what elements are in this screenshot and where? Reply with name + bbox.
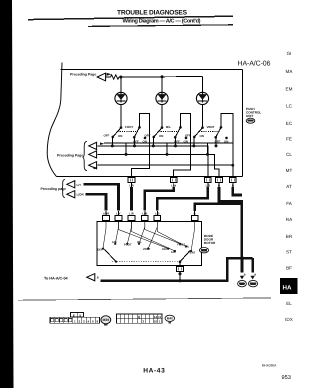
svg-text:B/L: B/L (166, 125, 171, 129)
svg-text:OFF: OFF (185, 134, 191, 138)
svg-text:OFF: OFF (145, 134, 151, 138)
svg-text:TROUBLE DIAGNOSES: TROUBLE DIAGNOSES (117, 9, 188, 16)
motor wiper arm right (180, 251, 190, 262)
svg-text:EM: EM (286, 86, 293, 91)
svg-text:RA: RA (286, 217, 293, 222)
push control unit connector oval (246, 118, 255, 123)
svg-text:Preceding Page: Preceding Page (57, 154, 83, 158)
ground arrow 1 (240, 276, 244, 280)
common line L0 (104, 142, 233, 144)
junction dot bus3 to vent leg (231, 164, 234, 167)
preceding page arrow bus2 (89, 151, 97, 158)
svg-text:OFF: OFF (104, 134, 110, 138)
svg-text:VENT: VENT (207, 125, 215, 129)
motor bottom pin (177, 266, 184, 271)
push pin stems (132, 183, 233, 188)
thick wire motor B pin (195, 204, 242, 211)
wire motor to ground bus (179, 271, 181, 280)
thick ground wire pin5 (233, 187, 242, 195)
svg-text:BR: BR (286, 234, 293, 239)
motor pin stems (106, 211, 195, 216)
motor connector oval (200, 248, 209, 253)
flow arrow bus1 (100, 142, 104, 145)
svg-text:VENT: VENT (143, 247, 151, 251)
push control unit label (246, 107, 261, 118)
bus wire 2 (98, 154, 220, 177)
svg-text:EC: EC (286, 121, 293, 126)
VENT switch group (185, 105, 233, 178)
svg-text:EL: EL (286, 301, 292, 306)
ground drop 2 (251, 258, 254, 272)
svg-text:Preceding Page: Preceding Page (70, 73, 96, 77)
bottom connector A id oval (101, 316, 111, 324)
svg-text:B/L: B/L (137, 240, 142, 244)
svg-text:11: 11 (158, 315, 162, 319)
svg-text:ON: ON (118, 134, 122, 138)
preceding page arrow top (97, 73, 105, 81)
svg-text:GI: GI (287, 51, 292, 56)
svg-text:M39: M39 (102, 318, 109, 322)
svg-text:L/OR: L/OR (103, 212, 109, 215)
bottom connector A top box (71, 312, 84, 317)
mode door motor label (204, 234, 216, 245)
svg-text:IDX: IDX (285, 317, 293, 322)
LED lamp 2 (B/L indicator) (156, 77, 168, 105)
svg-text:953: 953 (282, 375, 291, 381)
thick wire L/R pin1 to motor (130, 187, 133, 210)
svg-text:HA-A/C-06: HA-A/C-06 (238, 59, 271, 67)
svg-text:B: B (254, 274, 256, 277)
flow arrow on top wire (107, 73, 112, 76)
to HA-A/C-04 arrow (87, 274, 95, 281)
svg-text:MT: MT (286, 168, 293, 173)
ground junction dot (240, 256, 244, 260)
bottom connector B grid (117, 314, 163, 323)
svg-text:DEF: DEF (162, 247, 168, 251)
svg-text:To HA-A/C-04: To HA-A/C-04 (44, 276, 69, 280)
svg-text:L/Y: L/Y (116, 212, 120, 215)
wire from arrow to resistor (106, 76, 111, 78)
svg-text:A/D: A/D (112, 240, 117, 244)
mode door motor box (97, 222, 202, 266)
svg-text:MOTOR: MOTOR (204, 241, 216, 245)
flow arrow bus3 (94, 167, 98, 170)
svg-text:DEF: DEF (97, 247, 103, 251)
thick ground wire pin4 (219, 187, 242, 258)
svg-text:14: 14 (154, 315, 158, 319)
svg-text:BF: BF (286, 265, 292, 270)
svg-text:UNIT: UNIT (246, 114, 253, 118)
ground symbol left (238, 280, 247, 286)
mode door motor connector pins (103, 216, 198, 221)
svg-text:ON: ON (200, 134, 204, 138)
preceding page arrow bus3 (89, 162, 97, 169)
motor position labels (97, 240, 196, 254)
resistor zigzag illumination (111, 75, 119, 79)
svg-text:FA: FA (286, 201, 293, 206)
wiper to bottom pin (179, 262, 181, 267)
svg-text:A/D: A/D (171, 250, 176, 254)
bus wire 3 (98, 164, 233, 166)
bottom connector B id oval (165, 315, 175, 321)
connector pins under push control unit (128, 178, 236, 183)
junction dots bus2 (125, 143, 210, 156)
separator line above connector area (18, 298, 271, 300)
svg-text:L/B: L/B (155, 212, 159, 215)
bottom connector A strip (50, 317, 100, 323)
svg-text:B: B (244, 274, 246, 277)
motor wiper arm left (105, 249, 117, 261)
svg-text:AT: AT (286, 184, 292, 189)
header rule upper (28, 16, 233, 19)
ground symbol right (248, 280, 257, 286)
push control unit box outline: top edge (61, 68, 243, 70)
thick wire L/W pin2 to motor (145, 187, 174, 210)
bus wire 1 (98, 146, 208, 178)
motor internal fan wires (103, 221, 195, 251)
svg-text:FE: FE (286, 136, 292, 141)
preceding page arrow bus1 (89, 142, 97, 149)
ground drop 1 (241, 258, 244, 272)
svg-text:MA: MA (286, 69, 294, 74)
brace mid (83, 141, 87, 170)
svg-text:LC: LC (286, 103, 293, 108)
svg-text:ON: ON (159, 134, 163, 138)
push control unit box outline: wavy torn left edge (47, 63, 62, 177)
junction dot top wire 2 (161, 75, 164, 78)
motor pin colour labels (103, 212, 196, 215)
svg-text:10: 10 (154, 320, 158, 324)
svg-text:FOOT: FOOT (124, 242, 132, 246)
svg-text:Wiring Diagram — A/C — (Cont’d: Wiring Diagram — A/C — (Cont’d) (123, 18, 201, 25)
thick wire L/B pin3 to motor (157, 187, 208, 210)
thick ground bus bottom (101, 258, 253, 281)
header rule lower (88, 25, 233, 27)
page gutter black band (0, 0, 14, 388)
svg-text:HA-43: HA-43 (143, 368, 165, 375)
brace lower (61, 180, 65, 198)
svg-text:B: B (194, 212, 196, 215)
thick wire L/Y (84, 184, 119, 210)
motor position contact dots (102, 243, 192, 252)
junction dots bus1 (111, 144, 218, 147)
svg-text:B/L: B/L (185, 244, 190, 248)
LED lamp 3 (VENT indicator) (196, 77, 208, 105)
ground arrow 2 (250, 276, 254, 280)
B/L switch group (145, 105, 191, 178)
svg-text:L/Y: L/Y (77, 183, 82, 187)
thick wire L/OR (86, 194, 107, 210)
svg-text:FOOT: FOOT (125, 125, 133, 129)
motor wiper link dashed (112, 261, 180, 263)
svg-text:L/OR: L/OR (77, 193, 85, 197)
FOOT switch group (104, 105, 150, 178)
preceding page arrow L/Y (67, 181, 75, 188)
pin wire colour labels (129, 184, 233, 187)
svg-text:HA: HA (283, 285, 292, 292)
push control unit box outline: right edge (241, 69, 243, 176)
preceding page arrow L/OR (67, 191, 75, 198)
svg-text:B: B (97, 277, 99, 280)
section tabs right margin (285, 51, 293, 322)
LED lamp 1 (FOOT indicator) (115, 77, 127, 105)
HA tab black box (280, 278, 298, 294)
svg-text:M40: M40 (167, 317, 173, 321)
svg-text:MHA280A: MHA280A (262, 364, 277, 368)
svg-text:L/R: L/R (129, 212, 133, 215)
push control unit box outline: bottom edge (57, 176, 243, 178)
svg-text:CL: CL (286, 152, 292, 157)
wire top horizontal to corner (119, 76, 203, 78)
junction dot top wire 1 (119, 76, 122, 79)
svg-text:L/W: L/W (142, 212, 147, 215)
svg-text:ST: ST (286, 249, 292, 254)
